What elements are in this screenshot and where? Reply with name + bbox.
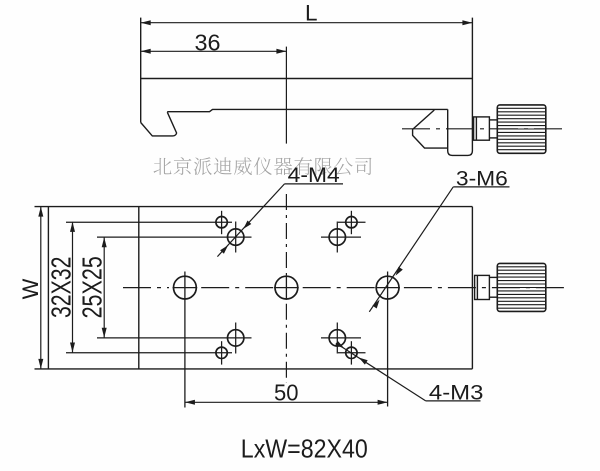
svg-text:L: L bbox=[305, 1, 318, 26]
svg-text:36: 36 bbox=[195, 30, 221, 56]
svg-text:50: 50 bbox=[274, 380, 299, 406]
svg-text:W: W bbox=[18, 278, 43, 299]
svg-text:25X25: 25X25 bbox=[76, 256, 107, 318]
svg-text:32X32: 32X32 bbox=[46, 257, 77, 318]
svg-text:LxW=82X40: LxW=82X40 bbox=[241, 433, 368, 463]
